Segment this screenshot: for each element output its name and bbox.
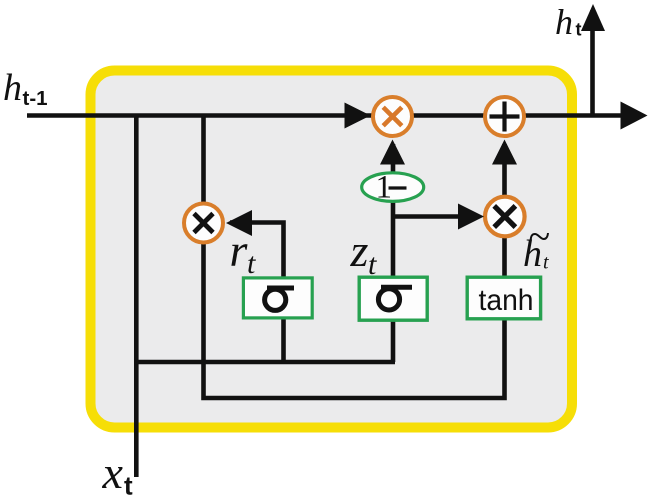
arrowhead: from 1-minus up into multiply	[380, 140, 405, 165]
svg-text:t: t	[543, 252, 549, 274]
gate: sigma box r (green rect)	[243, 278, 312, 318]
svg-text:t-1: t-1	[23, 87, 48, 110]
svg-text:t: t	[368, 248, 377, 281]
wire: h_t vertical output line	[590, 10, 595, 116]
svg-text:h: h	[3, 67, 22, 109]
op-node U2: add circle with black plus	[485, 97, 524, 136]
op-node U1: multiply (1-z) circle with orange X	[373, 97, 412, 136]
label r_t	[230, 225, 257, 281]
arrowhead: into multiply (1-z) from left	[345, 103, 371, 129]
arrowhead: z branch into candidate multiply	[458, 204, 484, 230]
wire: reset-multiply path down, along bottom, up into tanh and add	[204, 116, 505, 399]
gate: tanh box (green rect)	[467, 277, 540, 319]
arrowhead: candidate up into add	[492, 140, 517, 165]
svg-text:z: z	[350, 225, 369, 276]
svg-text:t: t	[124, 471, 133, 497]
node: 1-minus ellipse (green)	[362, 170, 424, 206]
wire: sigma r output to reset multiply	[230, 223, 284, 363]
gate: sigma box z (green rect)	[359, 277, 427, 320]
svg-text:r: r	[230, 225, 249, 276]
svg-text:h: h	[523, 233, 542, 275]
wire: sigma z vertical through 1-minus	[391, 144, 396, 362]
arrowhead: h_t up	[581, 4, 605, 31]
wire: z_t branch to candidate multiply	[393, 214, 479, 219]
svg-text:t: t	[576, 20, 582, 40]
label h_t-1	[3, 67, 48, 110]
svg-text:h: h	[555, 2, 573, 42]
GRU cell body (yellow rounded box, gray fill)	[91, 71, 573, 428]
arrowhead: into reset multiply from right	[226, 210, 252, 236]
arrowhead: main output right	[621, 102, 648, 130]
label z_t	[350, 225, 378, 281]
wire: h_t-1 main horizontal line	[27, 113, 640, 118]
wire: x_t feed line to sigma gates	[136, 360, 395, 365]
svg-text:t: t	[247, 247, 256, 280]
svg-text:tanh: tanh	[479, 284, 534, 317]
wire: x_t vertical input line	[134, 116, 139, 478]
label h_t (output)	[555, 2, 582, 42]
op-node U3: reset multiply circle with black X	[184, 204, 223, 243]
label x_t (input)	[102, 447, 134, 497]
op-node U4: candidate multiply circle with black X	[485, 197, 525, 237]
svg-text:x: x	[102, 447, 124, 497]
label h~_t (candidate)	[523, 214, 550, 275]
